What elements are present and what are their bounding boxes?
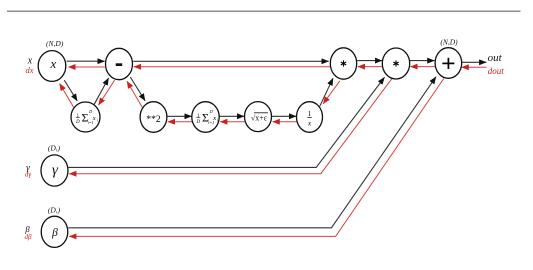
svg-text:D: D: [196, 120, 201, 125]
wire x to mean1 (forward): [64, 80, 77, 101]
node mul1: [330, 48, 356, 79]
wire dout to plus (backward): [462, 66, 487, 68]
svg-text:D: D: [88, 109, 92, 114]
svg-text:D: D: [75, 120, 80, 125]
wire minus to x (backward dx): [68, 66, 104, 68]
svg-text:**2: **2: [146, 115, 161, 125]
wire gamma to mul2 (forward, bent): [68, 77, 384, 167]
svg-text:x: x: [50, 56, 57, 71]
wire mul2 to gamma (backward, bent): [69, 78, 392, 174]
svg-text:β: β: [51, 227, 58, 239]
wire mul1 to mul2 (forward): [357, 60, 382, 62]
wire plus to beta (backward, bent): [69, 79, 444, 237]
svg-text:(D,): (D,): [48, 206, 61, 215]
wire sqrt to mean2 (backward): [220, 121, 244, 123]
svg-text:dγ: dγ: [25, 171, 32, 179]
svg-text:1: 1: [308, 110, 312, 118]
node mean1: [71, 102, 100, 132]
svg-text:dx: dx: [25, 65, 33, 75]
wire sq to mean2 (forward): [167, 115, 191, 117]
wire mean2 to sqrt (forward): [220, 115, 245, 117]
node squared: [140, 102, 167, 133]
node sqrt: [245, 102, 272, 132]
node mul2: [382, 48, 409, 79]
wire mul2 to mul1 (backward): [358, 66, 383, 68]
node plus: [435, 48, 462, 79]
wire x to minus (forward): [67, 60, 105, 62]
wire sq to minus (backward): [127, 81, 142, 107]
node mean2: [192, 102, 219, 133]
wire minus to mul1 long (forward): [133, 60, 328, 62]
wire plus to mul2 (backward): [410, 66, 435, 68]
svg-text:dout: dout: [488, 66, 505, 76]
svg-text:out: out: [488, 52, 503, 64]
node gamma: [41, 155, 68, 186]
wire inv to mul1 (forward): [320, 78, 333, 106]
node beta: [41, 216, 68, 247]
wire plus to out (forward): [462, 61, 486, 63]
svg-text:(D,): (D,): [48, 144, 61, 153]
svg-text:(N,D): (N,D): [440, 38, 458, 47]
wire minus to sq (forward): [130, 77, 145, 101]
top horizontal rule: [7, 10, 521, 12]
node one-over-x: [297, 102, 323, 133]
node x: [38, 51, 66, 82]
svg-text:D: D: [209, 109, 213, 114]
wire mean1 to minus (forward): [94, 78, 108, 104]
wire mean1 to x (backward): [60, 84, 74, 108]
svg-text:√x+ε: √x+ε: [251, 114, 268, 123]
wire mean2 to sq (backward): [168, 121, 192, 123]
svg-text:dβ: dβ: [25, 233, 33, 241]
svg-text:x: x: [92, 115, 96, 122]
wire beta to plus (forward, bent): [68, 77, 436, 228]
wire mul2 to plus (forward): [410, 60, 434, 62]
wire mul1 to minus long (backward): [134, 66, 330, 68]
svg-text:(N,D): (N,D): [46, 39, 64, 48]
wire minus to mean1 (backward): [99, 80, 115, 105]
node minus: [106, 48, 133, 79]
wire sqrt to inv (forward): [272, 115, 296, 117]
wire inv to sqrt (backward): [273, 121, 297, 123]
svg-text:x: x: [212, 115, 216, 122]
wire mul1 to inv (backward): [323, 81, 340, 104]
